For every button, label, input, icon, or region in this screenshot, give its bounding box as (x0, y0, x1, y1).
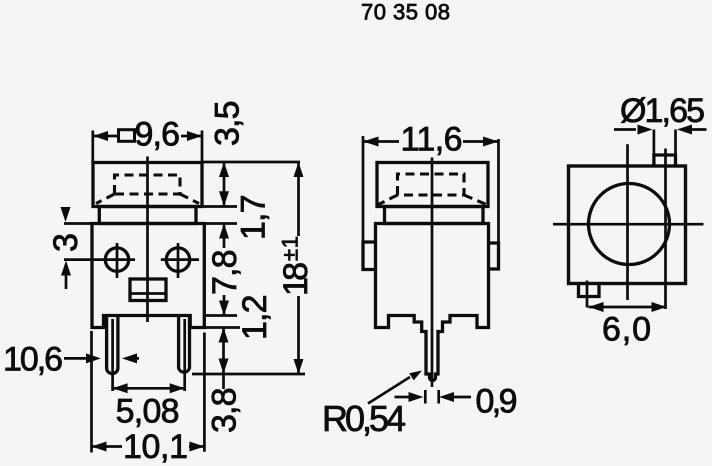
svg-text:0,9: 0,9 (476, 382, 518, 420)
square body outline (569, 166, 686, 284)
vertical centerline (146, 157, 149, 323)
svg-text:10,1: 10,1 (123, 428, 188, 466)
arrow 10,6 right-pointing (86, 353, 101, 363)
svg-text:Ø1,65: Ø1,65 (620, 92, 705, 130)
tab inner line / 6,0 ext left (586, 281, 589, 308)
bottom dims of front view (92, 331, 205, 466)
arrow 10,6 left-pointing (122, 353, 137, 363)
arrow 7,8 down (219, 301, 229, 316)
dim line (363, 140, 499, 143)
svg-text:5,08: 5,08 (116, 392, 180, 430)
arrow left 9,6 (93, 131, 108, 141)
neck outline (385, 207, 484, 224)
arrow 10,1 right (189, 442, 204, 452)
left side dims (3, 207, 139, 379)
svg-text:18: 18 (277, 262, 315, 296)
ext right (674, 130, 677, 156)
arrow 3,8 up (219, 328, 229, 343)
left arrow (614, 128, 636, 131)
leader arrowhead (409, 371, 422, 381)
hidden plunger dashed rect (398, 174, 465, 195)
svg-text:3: 3 (47, 233, 85, 252)
square symbol (119, 130, 135, 142)
dim 0,9 (395, 382, 518, 420)
hidden plunger dashed slants (379, 195, 487, 205)
arrow 5,08 left (113, 383, 128, 393)
svg-text:3,8: 3,8 (206, 388, 244, 434)
dim 7,8 line upper (223, 224, 226, 249)
arrow 3,5 up (219, 162, 229, 177)
body outline with stepped bottom (92, 224, 204, 328)
mounting hole left (105, 248, 128, 271)
centerline (431, 158, 434, 388)
dim 7,8 line lower (223, 295, 226, 316)
ext neck bottom left (64, 222, 92, 225)
right mounting tab (489, 243, 499, 269)
dim Ø1,65 (614, 92, 707, 155)
top tab (pin Ø1,65) (654, 155, 676, 166)
ext step line (204, 314, 237, 317)
cap outline (93, 163, 202, 207)
extension line left of 9,6 (91, 131, 94, 163)
ext cap top to 18 dim (202, 161, 300, 164)
dim 3,8 line (222, 328, 225, 390)
dim 3,5 line (223, 162, 226, 206)
bottom-left tab (579, 284, 600, 297)
right side dimension stack (64, 101, 315, 434)
dim 3 arrow up (61, 261, 71, 276)
dim 10,1 line (92, 445, 205, 448)
ext left (362, 136, 365, 242)
right pin (179, 316, 190, 373)
body outline with stepped bottom and centre pin (376, 224, 489, 381)
svg-text:±1: ±1 (278, 236, 303, 261)
right arrow (677, 125, 692, 135)
arrow 7,8 up (219, 224, 229, 239)
leader 10,6 (64, 357, 88, 360)
vertical centerline (626, 144, 629, 300)
arrow right (483, 137, 499, 147)
ext stubs (425, 390, 438, 404)
ext wing bottom (204, 326, 240, 329)
svg-text:3,5: 3,5 (209, 101, 247, 147)
hidden plunger dashed slants (96, 194, 199, 204)
dim 11,6 (363, 121, 499, 244)
center detail rect (130, 279, 166, 301)
hole-center line extended left (dim 3) (64, 258, 135, 261)
ext cap bottom (202, 205, 237, 208)
neck outline (99, 207, 196, 224)
ext 10,1 right (203, 333, 206, 452)
left arrow (395, 396, 411, 399)
arrow 3,8 down (219, 359, 229, 374)
left mounting tab (363, 242, 376, 270)
extension line right of 9,6 (201, 131, 204, 163)
right pin middle line (183, 319, 186, 391)
right arrow (439, 392, 454, 402)
left pin middle line (111, 319, 114, 391)
hole right crosshair vertical (177, 243, 180, 278)
arrow 3,5 down (219, 191, 229, 206)
arrow right 9,6 (187, 131, 202, 141)
svg-text:R0,54: R0,54 (322, 398, 406, 439)
pin center line long (664, 149, 667, 310)
cap outline (377, 163, 488, 207)
ext 10,1 left (90, 331, 93, 453)
ext neck bottom right (204, 222, 237, 225)
hole right crosshair horizontal (161, 258, 199, 261)
hole left crosshair vertical (116, 243, 119, 278)
svg-text:10,6: 10,6 (3, 341, 63, 379)
svg-text:1,2: 1,2 (236, 295, 274, 341)
svg-text:9,6: 9,6 (135, 116, 181, 154)
dim line (589, 306, 667, 309)
svg-text:11,6: 11,6 (401, 121, 463, 159)
dim 5,08 line (113, 387, 185, 390)
svg-text:70 35 08: 70 35 08 (361, 0, 450, 25)
left pin (107, 316, 118, 374)
leader R0,54 (322, 371, 422, 440)
ext pin tip (192, 373, 305, 376)
ext left (653, 130, 656, 156)
ext right (497, 139, 500, 243)
arrow right (652, 302, 667, 312)
arrow 18 down (294, 359, 304, 374)
dimension square 9,6 top (93, 116, 202, 163)
horizontal centerline (553, 223, 704, 226)
leader line (368, 377, 410, 404)
dim line 9,6 (93, 135, 202, 138)
svg-text:6,0: 6,0 (602, 311, 651, 349)
center detail rect inner line (130, 292, 166, 295)
dim 3 arrow down (64, 210, 67, 214)
arrow 18 up (294, 162, 304, 177)
dim 6,0 (589, 302, 667, 349)
svg-text:7,8: 7,8 (206, 250, 244, 296)
dim 18±1 line (297, 162, 300, 374)
hole right (166, 248, 189, 271)
arrow 5,08 right (170, 383, 185, 393)
arrow left (363, 137, 379, 147)
hidden plunger dashed rect (115, 175, 181, 194)
plunger circle (589, 184, 670, 265)
svg-text:1,7: 1,7 (235, 195, 273, 241)
arrow 10,1 left (92, 442, 107, 452)
arrow left (589, 302, 604, 312)
